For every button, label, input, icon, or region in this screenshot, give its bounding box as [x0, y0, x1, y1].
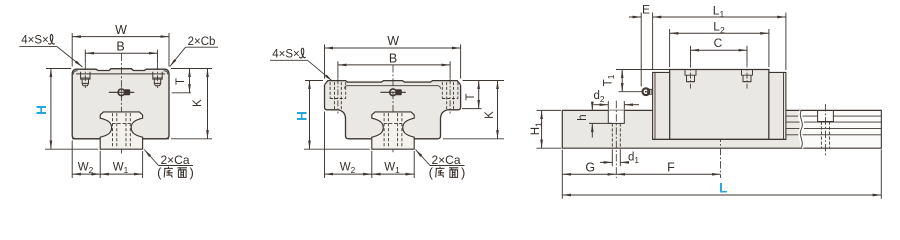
dim L1 view3	[653, 3, 786, 70]
dim H1 view3	[530, 110, 561, 148]
dim L view3	[562, 149, 881, 198]
svg-text:T: T	[175, 78, 187, 85]
svg-text:T: T	[465, 93, 477, 100]
svg-text:2×Cb: 2×Cb	[188, 36, 216, 48]
svg-text:W: W	[115, 23, 127, 37]
svg-text:2×Ca: 2×Ca	[160, 153, 189, 167]
view1 block bottom edge	[72, 138, 169, 140]
label 4xSxl view1	[20, 35, 83, 67]
svg-text:): )	[190, 165, 194, 180]
svg-text:4×S×: 4×S×	[272, 48, 300, 60]
dim K view2	[443, 81, 504, 139]
dim W view1	[72, 23, 169, 67]
view3 end cap right	[769, 72, 786, 139]
svg-text:K: K	[192, 99, 204, 107]
dim d1 view3	[600, 149, 639, 166]
view1 screw S left	[81, 64, 90, 88]
view2 block fill	[325, 81, 461, 139]
view2 grease fitting	[380, 89, 406, 96]
dim E view3	[629, 3, 653, 87]
view3 rail groove lines	[786, 116, 881, 135]
view3 hidden hole center line	[720, 135, 722, 179]
svg-text:B: B	[389, 51, 397, 65]
dim W2 view2	[325, 112, 415, 179]
dim H view2	[295, 81, 370, 150]
svg-text:H: H	[34, 105, 49, 115]
view3 left hole counterbore	[608, 101, 624, 178]
view3 end cap left	[653, 72, 670, 139]
svg-text:L: L	[719, 181, 727, 196]
svg-text:W: W	[387, 34, 399, 48]
view3 rail body	[562, 110, 881, 148]
svg-text:2×Ca: 2×Ca	[431, 153, 460, 167]
dim G view3	[562, 150, 616, 199]
view3 block body	[670, 70, 769, 140]
dim W1 view1	[100, 162, 142, 176]
dim F view3	[616, 161, 720, 175]
view1 screw S right	[153, 64, 162, 88]
view2 rail cross-section	[372, 112, 414, 149]
view3 bottom edge	[653, 138, 786, 140]
view1 block inner seal line	[73, 71, 167, 75]
svg-text:E: E	[642, 3, 650, 17]
label 2xCb view1	[170, 36, 218, 67]
svg-text:K: K	[484, 111, 496, 119]
dim B view2	[338, 51, 450, 78]
dim L2 view3	[670, 20, 769, 67]
view1 grease fitting	[109, 89, 135, 96]
dim W1 view2	[372, 162, 414, 176]
dim T view1	[171, 69, 212, 93]
dim T view2	[462, 81, 504, 109]
dim W2 view1	[72, 141, 142, 179]
view2 block outline	[325, 81, 461, 139]
dim B view1	[85, 39, 157, 64]
svg-text:4×S×: 4×S×	[21, 35, 49, 47]
view3 rail outer white portion	[801, 111, 881, 147]
dim T1 view3	[603, 70, 670, 92]
svg-text:h: h	[577, 114, 589, 120]
view1 block body outline	[72, 69, 169, 139]
label 4xSxl view2	[270, 48, 333, 81]
view3 rail break line	[800, 110, 802, 148]
view2 flange hole right	[442, 78, 458, 113]
svg-text:(: (	[157, 165, 162, 180]
view3 screw hole right	[742, 62, 753, 89]
view2 center line	[392, 65, 394, 154]
dim C view3	[691, 36, 748, 62]
label 2xCa view2	[416, 150, 466, 181]
dim K view1	[171, 69, 212, 139]
view1 rail cross-section	[100, 112, 142, 149]
view1 center line	[120, 54, 122, 154]
svg-text:F: F	[667, 161, 675, 175]
view2 inner seal line	[345, 86, 441, 89]
dim d2 view3	[593, 90, 639, 109]
svg-text:B: B	[116, 39, 124, 53]
dim H view1	[34, 69, 98, 150]
svg-text:C: C	[714, 36, 723, 50]
svg-text:): )	[461, 165, 465, 180]
view3 right hole	[818, 104, 834, 156]
svg-text:(: (	[429, 165, 434, 180]
dim W view2	[325, 34, 461, 78]
dim h view3	[577, 102, 612, 138]
view3 seal lines	[655, 72, 784, 139]
svg-text:G: G	[585, 161, 595, 175]
view3 grease nipple	[643, 88, 652, 95]
label 2xCa view1	[144, 150, 194, 181]
view3 screw hole left	[685, 62, 696, 89]
svg-text:H: H	[295, 111, 310, 121]
view2 flange hole left	[330, 78, 346, 113]
